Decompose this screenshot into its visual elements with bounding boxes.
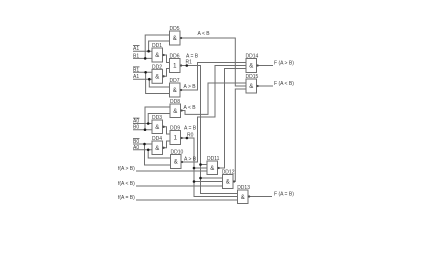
wire DD4 output to DD9	[163, 141, 171, 148]
svg-text:f(A < B): f(A < B)	[118, 181, 135, 187]
svg-text:A > B: A > B	[184, 84, 197, 90]
svg-text:f(A > B): f(A > B)	[118, 166, 135, 172]
and-gate DD4	[152, 141, 165, 155]
svg-text:&: &	[155, 125, 159, 131]
svg-text:DD15: DD15	[246, 74, 259, 80]
wire f(A=B) input line	[136, 199, 238, 201]
wire A&gt;B bit0 net DD10 to DD14	[181, 66, 246, 163]
svg-text:DD12: DD12	[222, 170, 235, 176]
wire B1-bar input line	[133, 71, 152, 73]
svg-text:&: &	[155, 53, 159, 59]
wire A&lt;B bit0 net DD8 to DD15	[181, 83, 247, 114]
svg-text:F (A < B): F (A < B)	[274, 81, 294, 87]
svg-text:&: &	[173, 109, 177, 115]
and-gate DD3	[152, 120, 165, 134]
svg-text:A1: A1	[133, 74, 139, 80]
wire F(A=B) output line	[248, 196, 272, 198]
wire DD2 output to DD6	[163, 69, 170, 77]
svg-text:A > B: A > B	[184, 157, 197, 163]
node R0 dot	[186, 137, 189, 140]
svg-text:A < B: A < B	[184, 105, 197, 111]
wire R0 tap to DD12	[194, 181, 223, 183]
svg-text:&: &	[210, 166, 214, 172]
junction R1 to DD12	[199, 177, 202, 180]
wire B1-bar dropper to DD7	[146, 72, 170, 93]
node R1 dot	[186, 64, 189, 67]
svg-text:B0: B0	[133, 125, 139, 131]
junction B1-bar dropper	[144, 71, 147, 74]
junction R0 to DD11	[193, 167, 196, 170]
wire DD1 output to DD6	[163, 55, 170, 63]
wire F(A&lt;B) output line	[257, 85, 274, 87]
svg-text:A0: A0	[133, 145, 139, 151]
svg-text:&: &	[249, 84, 253, 90]
wire A&gt;B bit1 net DD7 to DD14	[180, 63, 246, 91]
and-gate DD12	[223, 175, 236, 189]
svg-text:&: &	[155, 146, 159, 152]
svg-text:&: &	[173, 88, 177, 94]
svg-text:F (A > B): F (A > B)	[274, 61, 294, 67]
svg-text:&: &	[173, 36, 177, 42]
and-gate DD8	[170, 104, 183, 118]
wire A&lt;B bit1 net DD5 to DD15	[180, 38, 246, 86]
wire f(A&gt;B) input line	[136, 170, 207, 172]
wire R0 tap to DD11	[194, 167, 207, 169]
or-gate DD6	[170, 59, 183, 73]
wire A0-bar riser to DD8	[148, 114, 170, 124]
wire R1 tap to DD11	[201, 164, 208, 166]
junction A0 dropper	[147, 149, 150, 152]
junction R1 to DD11	[199, 163, 202, 166]
svg-text:DD8: DD8	[170, 99, 180, 105]
svg-text:DD5: DD5	[170, 26, 180, 32]
junction A1 dropper	[148, 78, 151, 81]
and-gate DD5	[170, 31, 183, 45]
wire R1 tap to DD12	[201, 177, 223, 179]
junction B0 riser	[144, 128, 147, 131]
svg-text:A < B: A < B	[198, 31, 211, 37]
svg-text:f(A = B): f(A = B)	[118, 195, 135, 201]
wire A1-bar riser to DD5	[149, 41, 170, 51]
wire B1 input line	[133, 57, 152, 59]
wire A0 dropper to DD10	[148, 150, 170, 158]
svg-text:DD2: DD2	[152, 64, 162, 70]
svg-text:&: &	[249, 64, 253, 70]
and-gate DD11	[207, 161, 220, 175]
svg-text:DD14: DD14	[246, 54, 259, 60]
svg-text:DD7: DD7	[170, 78, 180, 84]
wire R1 net DD6 down to DD13	[180, 66, 238, 194]
svg-text:&: &	[241, 195, 245, 201]
wire B0-bar input line	[133, 143, 152, 145]
wire A0-bar input line	[133, 123, 152, 125]
junction A0-bar riser	[147, 122, 150, 125]
svg-text:&: &	[226, 180, 230, 186]
wire DD3 output to DD9	[163, 127, 171, 134]
svg-text:DD3: DD3	[152, 115, 162, 121]
svg-text:DD4: DD4	[152, 136, 162, 142]
wire B0 riser to DD8	[145, 107, 170, 130]
svg-text:&: &	[174, 160, 178, 166]
svg-text:DD11: DD11	[207, 156, 220, 162]
wire B1 riser to DD5	[145, 35, 169, 58]
and-gate DD2	[152, 69, 165, 83]
svg-text:DD13: DD13	[237, 185, 250, 191]
wire DD11 output to DD14	[218, 69, 247, 169]
svg-text:B1: B1	[133, 53, 139, 59]
junction B1 riser	[144, 57, 147, 60]
wire A0 input line	[133, 149, 152, 151]
svg-text:B1: B1	[133, 67, 139, 73]
svg-text:A = B: A = B	[184, 126, 197, 132]
svg-text:A1: A1	[133, 46, 139, 52]
wire A1-bar input line	[133, 50, 152, 52]
svg-text:DD1: DD1	[152, 43, 162, 49]
svg-text:&: &	[155, 75, 159, 81]
wire A1 input line	[133, 78, 152, 80]
wire R0 net DD9 down to DD13	[181, 138, 238, 197]
wire f(A&lt;B) input line	[136, 185, 223, 187]
svg-text:F (A = B): F (A = B)	[274, 192, 294, 198]
and-gate DD14	[246, 59, 259, 73]
wire F(A&gt;B) output line	[257, 65, 274, 67]
svg-text:DD10: DD10	[171, 150, 184, 156]
and-gate DD10	[171, 155, 184, 169]
svg-text:A0: A0	[133, 119, 139, 125]
or-gate DD9	[170, 131, 183, 145]
wire A1 dropper to DD7	[149, 79, 169, 87]
junction R0 to DD12	[193, 180, 196, 183]
and-gate DD1	[152, 48, 165, 62]
wire DD12 output to DD15	[233, 89, 246, 182]
and-gate DD7	[170, 83, 183, 97]
junction A1-bar riser	[147, 50, 150, 53]
svg-text:DD9: DD9	[170, 126, 180, 132]
wire B0 input line	[133, 129, 152, 131]
wire B0-bar dropper to DD10	[145, 144, 171, 165]
and-gate DD15	[246, 79, 259, 93]
and-gate DD13	[238, 190, 251, 204]
junction B0-bar dropper	[143, 143, 146, 146]
svg-text:DD6: DD6	[170, 54, 180, 60]
